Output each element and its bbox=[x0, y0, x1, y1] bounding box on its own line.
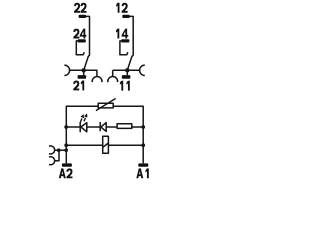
LED triangle bbox=[81, 123, 87, 132]
diode V1 cathode bar bbox=[99, 122, 101, 131]
LED arrow 2 bbox=[84, 118, 85, 122]
terminal mark A1 bbox=[138, 163, 148, 166]
LED cathode bar bbox=[79, 122, 81, 132]
junction dot bus A2 bbox=[64, 148, 68, 152]
relay coil K bbox=[103, 136, 109, 153]
connector plug arch below group2 bbox=[108, 77, 118, 83]
LED arrow 1 bbox=[81, 118, 82, 122]
wire 12 to fixed contact bbox=[129, 16, 133, 56]
bridge connector socket upper bbox=[49, 146, 55, 154]
terminal label 24 bbox=[73, 29, 86, 39]
terminal mark 11 bbox=[122, 75, 131, 79]
junction dot coil left bbox=[64, 143, 68, 147]
bridge wire lower bbox=[55, 150, 60, 161]
contact lever 11-12 bbox=[127, 56, 132, 70]
terminal label 11 bbox=[120, 81, 130, 91]
terminal label 12 bbox=[116, 3, 128, 13]
varistor diagonal bbox=[96, 99, 116, 111]
wire 22 to fixed contact bbox=[86, 16, 90, 56]
terminal label 14 bbox=[116, 29, 128, 39]
junction node 11 bbox=[125, 68, 129, 72]
wire middle row bbox=[66, 126, 143, 128]
wire coil row bbox=[66, 144, 143, 146]
terminal label A2 bbox=[59, 168, 73, 178]
wire stub to terminal 21 bbox=[83, 70, 85, 75]
terminal mark 22 bbox=[79, 15, 87, 18]
terminal mark 12 bbox=[122, 15, 130, 18]
coil circuit left bus bbox=[66, 106, 143, 163]
terminal label A1 bbox=[136, 168, 149, 178]
resistor R1 bbox=[117, 124, 132, 129]
wire common row right group bbox=[113, 70, 140, 76]
wire 24 NO contact hook bbox=[76, 41, 84, 55]
terminal mark 24 bbox=[78, 39, 86, 42]
diode V1 triangle bbox=[101, 123, 106, 132]
terminal label 22 bbox=[74, 3, 87, 13]
bridge connector socket lower bbox=[49, 157, 55, 165]
connector plug arch below group1 bbox=[92, 77, 102, 83]
junction dot middle left bbox=[64, 125, 68, 129]
contact lever 21-22 bbox=[84, 56, 89, 70]
junction node 21 bbox=[82, 68, 86, 72]
junction dot bridge bbox=[57, 148, 61, 152]
terminal mark 21 bbox=[78, 75, 87, 79]
junction dot coil right bbox=[141, 143, 145, 147]
junction dot middle right bbox=[141, 125, 145, 129]
wire stub to terminal 11 bbox=[126, 70, 128, 75]
terminal label 21 bbox=[73, 81, 84, 91]
connector socket left of 21 bbox=[64, 65, 69, 75]
wire 14 NO contact hook bbox=[120, 41, 128, 55]
terminal mark A2 bbox=[62, 163, 72, 166]
connector socket right of 11 bbox=[140, 65, 145, 75]
varistor RU bbox=[98, 103, 113, 108]
coil diagonal bbox=[103, 143, 109, 147]
terminal mark 14 bbox=[121, 39, 129, 42]
wire common row left group bbox=[70, 70, 97, 76]
bridge wire upper bbox=[55, 149, 67, 151]
